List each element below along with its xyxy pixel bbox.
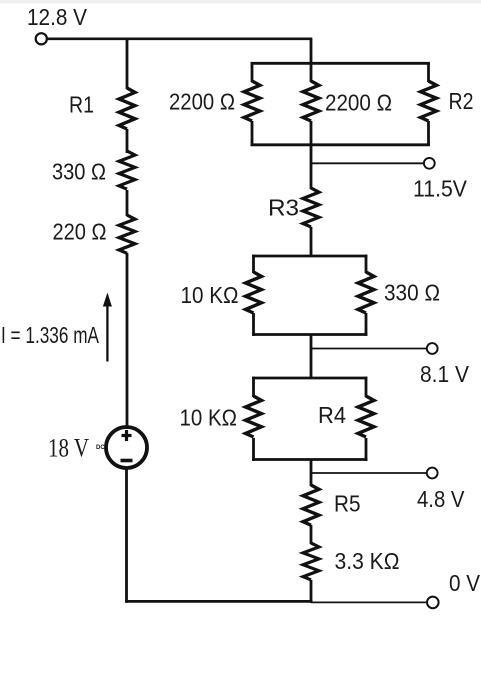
top gray strip xyxy=(0,0,481,4)
box1 bottom rail xyxy=(251,143,430,146)
svg-text:18 V: 18 V xyxy=(48,434,89,463)
resistor 3.3 Kohm xyxy=(303,543,319,580)
svg-text:0 V: 0 V xyxy=(449,570,481,596)
svg-text:DC: DC xyxy=(96,445,105,451)
svg-text:R3: R3 xyxy=(268,195,299,221)
resistor 2200 ohm left (box1 left edge) xyxy=(251,62,254,146)
wire top feed down to box1 xyxy=(310,39,313,65)
wire R5 to 3.3K xyxy=(310,525,313,544)
svg-text:2200 Ω: 2200 Ω xyxy=(169,89,235,115)
wire left branch top xyxy=(126,39,129,89)
terminal 0V xyxy=(427,597,439,609)
resistor 10K upper (box2 left edge) xyxy=(252,255,255,336)
resistor R3 xyxy=(303,188,319,227)
svg-text:3.3 KΩ: 3.3 KΩ xyxy=(335,548,400,574)
terminal 8.1V xyxy=(427,343,438,354)
wire R3 to box2 xyxy=(310,227,313,257)
minus sign of source xyxy=(121,459,133,463)
resistor 10K lower (box3 left edge) xyxy=(252,377,255,461)
svg-text:R2: R2 xyxy=(449,88,474,114)
wire tap 8.1V xyxy=(311,348,427,350)
svg-text:R1: R1 xyxy=(69,92,94,118)
box1 top rail xyxy=(251,62,430,65)
svg-text:11.5V: 11.5V xyxy=(413,176,468,202)
svg-text:330 Ω: 330 Ω xyxy=(52,159,106,185)
wire tap 4.8V xyxy=(311,472,427,474)
voltage source 18V xyxy=(106,427,147,468)
svg-text:4.8 V: 4.8 V xyxy=(417,486,465,512)
box2 top rail xyxy=(252,255,367,258)
resistor R2 (box1 right edge) xyxy=(427,62,430,146)
wire box3 bottom to R5 xyxy=(310,460,313,487)
terminal 4.8V xyxy=(427,468,438,479)
svg-text:8.1 V: 8.1 V xyxy=(420,361,470,387)
wire xyxy=(126,190,129,216)
box2 bottom rail xyxy=(252,333,367,336)
resistor 220 ohm xyxy=(119,215,135,253)
box3 bottom rail xyxy=(252,458,367,461)
svg-text:220 Ω: 220 Ω xyxy=(53,219,107,245)
wire tap 11.5V xyxy=(311,162,424,164)
svg-text:330 Ω: 330 Ω xyxy=(384,280,440,306)
terminal 11.5V xyxy=(424,158,435,169)
terminal 12.8V xyxy=(36,33,47,44)
svg-text:R5: R5 xyxy=(334,491,361,517)
wire tap 0V xyxy=(311,601,427,603)
wire source to bottom rail xyxy=(125,468,128,603)
svg-text:2200 Ω: 2200 Ω xyxy=(325,90,392,116)
svg-text:I = 1.336 mA: I = 1.336 mA xyxy=(1,322,99,348)
wire xyxy=(126,129,129,153)
current arrow I xyxy=(103,293,112,362)
plus sign of source xyxy=(122,430,132,441)
bottom rail xyxy=(125,600,312,603)
resistor R1 xyxy=(119,88,135,129)
wire top horizontal xyxy=(47,37,312,40)
wire left branch to source xyxy=(126,253,129,429)
svg-text:R4: R4 xyxy=(318,402,346,428)
wire 3.3K to bottom rail xyxy=(310,580,313,603)
resistor 330 ohm left branch xyxy=(119,151,135,189)
box3 top rail xyxy=(252,377,367,380)
resistor R4 (box3 right edge) xyxy=(365,377,368,461)
resistor 2200 ohm middle xyxy=(310,62,313,146)
svg-text:12.8 V: 12.8 V xyxy=(27,4,88,30)
wire box2 bottom to box3 xyxy=(310,335,313,380)
wire box1 bottom to R3 xyxy=(310,145,313,189)
svg-text:10 KΩ: 10 KΩ xyxy=(181,282,239,308)
svg-text:10 KΩ: 10 KΩ xyxy=(180,405,238,431)
resistor 330 ohm (box2 right edge) xyxy=(365,255,368,336)
resistor R5 xyxy=(303,485,319,525)
